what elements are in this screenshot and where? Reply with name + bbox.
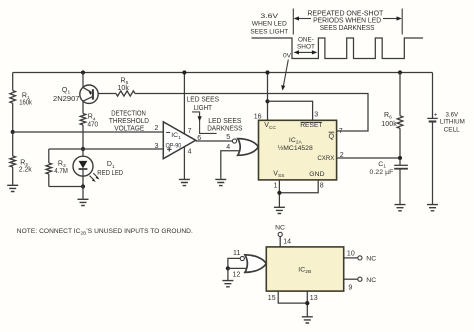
resistor R3	[46, 149, 68, 187]
wire sense to op-amp pin3	[49, 148, 164, 150]
svg-text:6: 6	[197, 135, 201, 142]
svg-text:NC: NC	[366, 256, 376, 263]
capacitor C1	[370, 158, 408, 205]
svg-text:ONE-: ONE-	[298, 37, 314, 44]
wire LED bottom	[49, 187, 83, 200]
svg-text:SEES LIGHT: SEES LIGHT	[250, 28, 288, 35]
wire gate pin4 to ground	[221, 151, 240, 179]
svg-text:VOLTAGE: VOLTAGE	[114, 125, 144, 132]
svg-text:Q: Q	[329, 132, 335, 141]
svg-text:11: 11	[233, 250, 240, 257]
wire Q1 collector	[82, 101, 84, 113]
svg-text:CELL: CELL	[444, 127, 461, 134]
svg-text:16: 16	[254, 113, 262, 120]
label led sees darkness	[207, 118, 242, 132]
waveform Q-bar output	[252, 38, 424, 59]
label Q-bar out	[329, 132, 335, 141]
ground	[78, 199, 89, 205]
svg-text:PERIODS WHEN LED: PERIODS WHEN LED	[313, 18, 381, 25]
node R6-C1	[398, 156, 402, 160]
NC terminal pin10	[358, 256, 362, 260]
wire GND pin8	[279, 180, 318, 193]
label one-shot	[297, 37, 315, 51]
wire VCC pin16 to rail	[267, 73, 269, 121]
LED D1	[73, 149, 123, 187]
wire to ground	[227, 268, 229, 280]
NOR gate IC2B input	[245, 255, 266, 273]
svg-text:10: 10	[347, 250, 355, 257]
svg-text:RESET: RESET	[300, 122, 322, 129]
label led sees light	[187, 97, 220, 112]
svg-text:3.6V: 3.6V	[261, 13, 279, 20]
svg-text:9: 9	[348, 285, 352, 292]
gate input bubble	[240, 256, 244, 260]
wire op-amp pin4	[183, 147, 185, 179]
svg-text:LED SEES: LED SEES	[187, 97, 220, 104]
svg-text:3: 3	[314, 112, 318, 119]
resistor R1	[10, 73, 33, 133]
IC U2B MC14528	[266, 247, 343, 291]
node rail-R6	[398, 70, 402, 74]
ground	[179, 179, 190, 185]
node gate inputs	[226, 266, 230, 270]
label repeated one-shot periods	[307, 10, 384, 32]
NC terminal pin14	[278, 232, 282, 236]
annotation one-shot step	[192, 112, 217, 133]
wire Q-bar net	[135, 94, 368, 132]
wire op-amp pin7 to rail	[183, 73, 185, 134]
svg-text:THRESHOLD: THRESHOLD	[109, 118, 149, 125]
dimension arrow right	[383, 16, 402, 20]
svg-text:2: 2	[155, 125, 159, 132]
node pin1-gnd	[277, 191, 281, 195]
wire gate pin12	[228, 267, 247, 269]
label RESET	[300, 122, 322, 129]
ground	[427, 205, 438, 211]
ground	[7, 185, 18, 191]
svg-text:2: 2	[340, 152, 344, 159]
wire top VCC rail	[13, 72, 433, 74]
wire Q1 emitter	[82, 73, 84, 88]
label detection threshold voltage	[109, 111, 149, 133]
NC terminal pin9	[358, 277, 362, 281]
wire op-amp output	[196, 140, 233, 142]
resistor R2	[10, 132, 32, 185]
dimension bars	[293, 9, 402, 35]
wire detection threshold	[13, 131, 164, 133]
svg-text:160k: 160k	[19, 100, 32, 107]
svg-text:DARKNESS: DARKNESS	[207, 125, 242, 132]
svg-text:SEES DARKNESS: SEES DARKNESS	[320, 25, 375, 32]
one-shot span arrow	[294, 50, 318, 54]
svg-text:SHOT: SHOT	[297, 44, 315, 51]
svg-text:GND: GND	[309, 171, 324, 178]
gate input bubble	[232, 139, 236, 143]
svg-text:LIGHT: LIGHT	[194, 105, 213, 112]
wire pin10	[344, 257, 358, 259]
svg-text:100k: 100k	[381, 121, 397, 128]
resistor R4	[80, 114, 98, 150]
svg-text:12: 12	[233, 272, 241, 279]
svg-text:7: 7	[188, 128, 192, 135]
svg-text:OP-90: OP-90	[166, 142, 182, 149]
node reset branch	[265, 99, 269, 103]
wire pin9	[344, 278, 358, 280]
node pin15-13	[305, 301, 309, 305]
node rail-pin7	[182, 70, 186, 74]
svg-text:4.7M: 4.7M	[54, 168, 68, 175]
svg-text:2N2907: 2N2907	[53, 96, 80, 103]
wire pin14	[279, 237, 281, 247]
IC U2A MC14528	[259, 120, 337, 180]
svg-text:10k: 10k	[117, 85, 129, 92]
wire gate pin11	[228, 258, 240, 268]
svg-text:WHEN LED: WHEN LED	[252, 21, 287, 28]
ground	[302, 317, 313, 323]
svg-text:3.6V: 3.6V	[446, 112, 459, 119]
svg-text:470: 470	[88, 121, 99, 128]
dimension arrow left	[294, 16, 311, 20]
svg-text:8: 8	[320, 183, 324, 190]
svg-text:CXRX: CXRX	[317, 155, 334, 162]
wire CXRX pin2	[337, 157, 400, 159]
ground	[274, 207, 285, 213]
svg-text:NOTE: CONNECT IC2B’S UNUSED IN: NOTE: CONNECT IC2B’S UNUSED INPUTS TO GR…	[17, 228, 193, 236]
svg-text:4: 4	[188, 148, 192, 155]
svg-text:LED SEES: LED SEES	[208, 118, 242, 125]
svg-text:1: 1	[274, 183, 278, 190]
resistor R5	[116, 78, 135, 97]
ground	[222, 281, 233, 287]
NOR gate IC2A input	[238, 139, 259, 156]
wire pin15	[278, 291, 307, 303]
svg-text:½MC14528: ½MC14528	[278, 144, 313, 152]
wire pin13	[306, 291, 308, 317]
wire reset branch	[268, 101, 313, 120]
label 3.6V when led sees light	[250, 13, 288, 36]
wire Q1 base	[98, 93, 116, 95]
node sense	[81, 147, 85, 151]
svg-text:13: 13	[310, 295, 318, 302]
svg-text:+: +	[434, 111, 438, 118]
svg-text:7: 7	[339, 128, 343, 135]
svg-text:14: 14	[283, 239, 291, 246]
svg-text:NC: NC	[366, 277, 376, 284]
svg-text:0.22 µF: 0.22 µF	[370, 169, 394, 176]
battery 3.6V lithium cell	[427, 73, 465, 205]
op-amp IC1	[163, 122, 195, 159]
svg-text:NC: NC	[275, 225, 285, 232]
pointer 0V to wire	[281, 60, 288, 91]
svg-text:15: 15	[268, 295, 276, 302]
svg-text:LITHIUM: LITHIUM	[440, 119, 465, 126]
node rail-IC2A	[265, 70, 269, 74]
resistor R6	[381, 73, 403, 159]
svg-text:3: 3	[155, 143, 159, 150]
node threshold divider	[11, 130, 15, 134]
svg-text:2.2k: 2.2k	[19, 166, 32, 173]
svg-text:4: 4	[226, 144, 230, 151]
node LED cathode	[81, 184, 85, 188]
svg-text:5: 5	[226, 134, 230, 141]
svg-text:DETECTION: DETECTION	[111, 111, 146, 118]
ground	[395, 205, 406, 211]
svg-text:REPEATED ONE-SHOT: REPEATED ONE-SHOT	[307, 10, 384, 17]
transistor Q1	[53, 85, 98, 103]
wire VSS pin1	[278, 180, 280, 207]
svg-text:RED LED: RED LED	[97, 170, 123, 177]
node rail-Q1	[81, 70, 85, 74]
ground	[215, 179, 226, 185]
svg-text:0V: 0V	[283, 52, 292, 59]
